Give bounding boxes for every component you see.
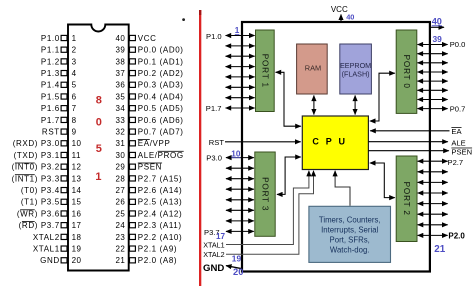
svg-text:P0.0: P0.0: [450, 40, 466, 49]
IC U1 8051 DIP-40 package outline with pin-1 notch: [68, 25, 129, 271]
svg-text:24: 24: [115, 221, 125, 230]
pin 30 row: pin number 30, pad square, right label "ALE/PROG": [115, 151, 183, 160]
small black dot mark left of divider: [182, 18, 185, 21]
svg-text:25: 25: [115, 209, 125, 218]
svg-text:19: 19: [72, 245, 82, 254]
svg-text:9: 9: [72, 128, 77, 137]
pin 39 row: pin number 39, pad square, right label "P0.0 (AD0)": [115, 46, 183, 55]
pin 15 row: left label "(T1) P3.5", pad square, pin number 15: [21, 198, 82, 207]
pin 40 row: pin number 40, pad square, right label "VCC": [115, 34, 156, 43]
wire: PORT 3 to CPU path: [277, 157, 301, 194]
pin 31 row: pin number 31, pad square, right label "EA/VPP": [115, 139, 170, 148]
svg-text:40: 40: [115, 34, 125, 43]
svg-text:PORT 3: PORT 3: [261, 177, 270, 211]
P3.0..P3.7 bidirectional pin arrows into PORT 3: [226, 157, 254, 159]
svg-text:11: 11: [72, 151, 81, 160]
svg-text:27: 27: [115, 186, 125, 195]
svg-text:EA: EA: [451, 127, 462, 136]
wire: CPU to PORT 0 path: [370, 73, 395, 121]
pin 38 row: pin number 38, pad square, right label "P0.1 (AD1)": [115, 57, 183, 66]
svg-text:XTAL1: XTAL1: [203, 241, 224, 250]
svg-text:RST: RST: [209, 138, 225, 147]
red "8051" vertical device name inside DIP: [95, 95, 102, 183]
pin 33 row: pin number 33, pad square, right label "P0.6 (AD6)": [115, 116, 183, 125]
svg-text:21: 21: [115, 256, 125, 265]
svg-text:18: 18: [72, 233, 82, 242]
svg-text:RST: RST: [42, 128, 60, 137]
svg-text:12: 12: [72, 163, 82, 172]
svg-text:39: 39: [115, 46, 125, 55]
svg-text:P0.0 (AD0): P0.0 (AD0): [138, 46, 184, 55]
svg-text:40: 40: [346, 12, 354, 21]
wire: PORT 1 to CPU path: [276, 72, 301, 126]
wire: pin-40 stub arrow top-right corner: [430, 26, 444, 28]
svg-text:14: 14: [72, 186, 82, 195]
svg-text:Port, SFRs,: Port, SFRs,: [330, 236, 370, 245]
svg-text:P2.6 (A14): P2.6 (A14): [138, 186, 182, 195]
svg-text:(WR) P3.6: (WR) P3.6: [17, 209, 60, 218]
wire: XTAL1 route to CPU: [226, 171, 309, 245]
svg-text:13: 13: [72, 174, 82, 183]
wire: GND arrow bottom-left: [226, 266, 243, 269]
svg-text:XTAL2: XTAL2: [33, 233, 60, 242]
CPU block: [302, 116, 368, 170]
wire: VCC supply arrow at top: [340, 15, 342, 23]
pin 26 row: pin number 26, pad square, right label "P2.5 (A13)": [115, 198, 182, 207]
svg-text:28: 28: [115, 174, 125, 183]
svg-text:29: 29: [115, 163, 125, 172]
pin 19 row: left label "XTAL1", pad square, pin number 19: [33, 245, 82, 254]
pin 7 row: left label "P1.6", pad square, pin number 7: [41, 104, 77, 113]
svg-text:(INT1) P3.3: (INT1) P3.3: [12, 174, 60, 183]
pin 3 row: left label "P1.2", pad square, pin number 3: [41, 57, 77, 66]
svg-text:P2.5 (A13): P2.5 (A13): [138, 198, 182, 207]
pin 36 row: pin number 36, pad square, right label "P0.3 (AD3)": [115, 81, 183, 90]
svg-text:P2.1 (A9): P2.1 (A9): [138, 245, 177, 254]
svg-text:XTAL2: XTAL2: [203, 250, 224, 259]
svg-text:P2.3 (A11): P2.3 (A11): [138, 221, 182, 230]
svg-text:P0.7: P0.7: [450, 104, 466, 113]
wire: CPU to PORT 2 path: [370, 163, 395, 198]
svg-text:19: 19: [232, 254, 242, 264]
pin 37 row: pin number 37, pad square, right label "P0.2 (AD2)": [115, 69, 183, 78]
svg-text:VCC: VCC: [138, 34, 157, 43]
svg-text:Timers, Counters,: Timers, Counters,: [319, 216, 381, 225]
pin 6 row: left label "P1.5", pad square, pin number 6: [41, 92, 77, 101]
svg-text:(T1) P3.5: (T1) P3.5: [21, 198, 60, 207]
P0.0..P0.7 bidirectional pin arrows out of PORT 0: [418, 44, 448, 46]
pin 2 row: left label "P1.1", pad square, pin number 2: [41, 46, 77, 55]
pin 29 row: pin number 29, pad square, right label "PSEN": [115, 163, 162, 172]
pin 27 row: pin number 27, pad square, right label "P2.6 (A14)": [115, 186, 182, 195]
svg-text:P1.5: P1.5: [41, 92, 60, 101]
pin 1 row: left label "P1.0", pad square, pin number 1: [41, 34, 77, 43]
svg-text:(INT0) P3.2: (INT0) P3.2: [12, 163, 60, 172]
wire: RST input to CPU: [225, 141, 301, 143]
svg-text:Watch-dog.: Watch-dog.: [330, 246, 370, 255]
svg-text:P0.3 (AD3): P0.3 (AD3): [138, 81, 184, 90]
svg-text:PSEN: PSEN: [138, 163, 162, 172]
svg-text:P0.4 (AD4): P0.4 (AD4): [138, 92, 184, 101]
pin 5 row: left label "P1.4", pad square, pin number 5: [41, 81, 77, 90]
pin 10 row: left label "(RXD) P3.0", pad square, pin number 10: [13, 139, 82, 148]
PORT 3 block: [255, 152, 275, 236]
PORT 1 block: [256, 30, 275, 112]
pin 18 row: left label "XTAL2", pad square, pin number 18: [33, 233, 82, 242]
svg-text:GND: GND: [203, 263, 224, 274]
svg-text:P1.2: P1.2: [41, 57, 60, 66]
svg-text:P1.4: P1.4: [41, 81, 60, 90]
svg-text:3: 3: [72, 57, 77, 66]
svg-text:20: 20: [233, 266, 243, 277]
svg-text:P1.3: P1.3: [41, 69, 60, 78]
svg-text:17: 17: [216, 232, 226, 241]
svg-text:P1.0: P1.0: [206, 32, 222, 41]
pin 22 row: pin number 22, pad square, right label "P2.1 (A9)": [115, 245, 177, 254]
svg-text:C P U: C P U: [312, 137, 347, 147]
svg-text:1: 1: [95, 171, 101, 183]
wire: PSEN output line: [368, 150, 448, 152]
P2.0..P2.7 bidirectional pin arrows out of PORT 2: [418, 160, 448, 162]
svg-text:33: 33: [115, 116, 125, 125]
svg-text:P2.4 (A12): P2.4 (A12): [138, 209, 182, 218]
svg-text:30: 30: [115, 151, 125, 160]
svg-text:6: 6: [72, 92, 77, 101]
svg-text:39: 39: [433, 34, 443, 44]
svg-text:P2.7: P2.7: [448, 158, 464, 167]
svg-text:15: 15: [72, 198, 82, 207]
pin 9 row: left label "RST", pad square, pin number 9: [42, 128, 77, 137]
svg-text:2: 2: [72, 46, 77, 55]
EEPROM (FLASH) block: [340, 44, 372, 94]
svg-text:P2.0: P2.0: [448, 231, 465, 240]
svg-text:PSEN: PSEN: [451, 148, 472, 157]
svg-text:34: 34: [115, 104, 125, 113]
svg-text:7: 7: [72, 104, 77, 113]
svg-text:(RXD) P3.0: (RXD) P3.0: [13, 139, 60, 148]
svg-text:40: 40: [432, 16, 442, 26]
svg-text:XTAL1: XTAL1: [33, 245, 60, 254]
svg-text:RAM: RAM: [305, 64, 321, 73]
pin 25 row: pin number 25, pad square, right label "P2.4 (A12)": [115, 209, 182, 218]
svg-text:10: 10: [231, 149, 241, 158]
wire: Timers block to CPU (stepped): [335, 171, 350, 206]
svg-text:(RD) P3.7: (RD) P3.7: [19, 221, 60, 230]
svg-text:23: 23: [115, 233, 125, 242]
svg-text:10: 10: [72, 139, 82, 148]
svg-text:5: 5: [72, 81, 77, 90]
svg-text:8: 8: [96, 95, 102, 107]
svg-text:(TXD) P3.1: (TXD) P3.1: [14, 151, 60, 160]
wire: ALE output line: [368, 141, 447, 143]
svg-text:26: 26: [115, 198, 125, 207]
pin 12 row: left label "(INT0) P3.2", pad square, pin number 12: [12, 163, 82, 172]
pin 24 row: pin number 24, pad square, right label "P2.3 (A11)": [115, 221, 181, 230]
pin 11 row: left label "(TXD) P3.1", pad square, pin number 11: [14, 151, 81, 160]
pin 4 row: left label "P1.3", pad square, pin number 4: [41, 69, 77, 78]
pin 23 row: pin number 23, pad square, right label "P2.2 (A10)": [115, 233, 182, 242]
svg-text:P1.1: P1.1: [41, 46, 60, 55]
pin 14 row: left label "(T0) P3.4", pad square, pin number 14: [21, 186, 82, 195]
svg-text:PORT 2: PORT 2: [402, 182, 411, 216]
red vertical divider line: [199, 10, 201, 286]
svg-text:P3.0: P3.0: [206, 153, 222, 162]
svg-text:P2.0 (A8): P2.0 (A8): [138, 256, 177, 265]
pin 8 row: left label "P1.7", pad square, pin number 8: [41, 116, 77, 125]
pin 32 row: pin number 32, pad square, right label "P0.7 (AD7)": [115, 128, 183, 137]
svg-text:EA/VPP: EA/VPP: [138, 139, 171, 148]
svg-text:P1.0: P1.0: [41, 34, 60, 43]
pin 35 row: pin number 35, pad square, right label "P0.4 (AD4)": [115, 92, 183, 101]
svg-text:21: 21: [434, 244, 445, 255]
svg-text:22: 22: [115, 245, 125, 254]
svg-text:0: 0: [96, 117, 102, 129]
svg-text:P0.7 (AD7): P0.7 (AD7): [138, 128, 184, 137]
svg-text:P2.2 (A10): P2.2 (A10): [138, 233, 182, 242]
pin 16 row: left label "(WR) P3.6", pad square, pin number 16: [17, 209, 82, 218]
svg-text:17: 17: [72, 221, 82, 230]
pin 13 row: left label "(INT1) P3.3", pad square, pin number 13: [12, 174, 82, 183]
outer chip boundary box: [242, 22, 430, 272]
PORT 0 block: [396, 30, 417, 113]
svg-text:8: 8: [72, 116, 77, 125]
pin 17 row: left label "(RD) P3.7", pad square, pin number 17: [19, 221, 82, 230]
svg-text:PORT 1: PORT 1: [260, 54, 269, 88]
svg-text:1: 1: [235, 26, 240, 35]
svg-text:P1.7: P1.7: [41, 116, 60, 125]
Timers / Counters / Interrupts / Serial / SFRs / Watch-dog block: [309, 206, 391, 262]
pin 20 row: left label "GND", pad square, pin number 20: [40, 256, 81, 265]
wire: EA input line to CPU: [370, 130, 449, 132]
svg-text:35: 35: [115, 92, 125, 101]
svg-text:ALE/PROG: ALE/PROG: [138, 151, 184, 160]
svg-text:31: 31: [115, 139, 125, 148]
svg-text:37: 37: [115, 69, 125, 78]
svg-text:P0.5 (AD5): P0.5 (AD5): [138, 104, 184, 113]
svg-text:P0.2 (AD2): P0.2 (AD2): [138, 69, 184, 78]
svg-text:5: 5: [96, 143, 102, 155]
svg-text:P0.1 (AD1): P0.1 (AD1): [138, 57, 184, 66]
svg-text:38: 38: [115, 57, 125, 66]
pin 28 row: pin number 28, pad square, right label "P2.7 (A15)": [115, 174, 182, 183]
wire: EEPROM to CPU bus (bidirectional): [354, 96, 356, 115]
wire: RAM to CPU bus (bidirectional): [313, 96, 315, 115]
RAM block: [297, 44, 328, 94]
svg-text:1: 1: [72, 34, 77, 43]
pin 34 row: pin number 34, pad square, right label "P0.5 (AD5)": [115, 104, 183, 113]
svg-text:32: 32: [115, 128, 125, 137]
svg-text:P1.6: P1.6: [41, 104, 60, 113]
P1.0..P1.7 bidirectional pin arrows into PORT 1: [226, 35, 255, 37]
svg-text:(T0) P3.4: (T0) P3.4: [21, 186, 60, 195]
svg-text:PORT 0: PORT 0: [402, 55, 411, 89]
svg-text:GND: GND: [40, 256, 60, 265]
svg-text:ALE: ALE: [451, 138, 465, 147]
svg-text:Interrupts, Serial: Interrupts, Serial: [321, 226, 378, 235]
wire: XTAL2 route to CPU: [226, 171, 314, 254]
svg-text:P1.7: P1.7: [206, 104, 222, 113]
pin 21 row: pin number 21, pad square, right label "P2.0 (A8)": [115, 256, 177, 265]
svg-text:P0.6 (AD6): P0.6 (AD6): [138, 116, 184, 125]
svg-text:P2.7 (A15): P2.7 (A15): [138, 174, 182, 183]
svg-text:20: 20: [72, 256, 82, 265]
PORT 2 block: [396, 156, 417, 242]
svg-text:(FLASH): (FLASH): [342, 70, 370, 79]
svg-text:4: 4: [72, 69, 77, 78]
svg-text:16: 16: [72, 209, 82, 218]
svg-text:36: 36: [115, 81, 125, 90]
